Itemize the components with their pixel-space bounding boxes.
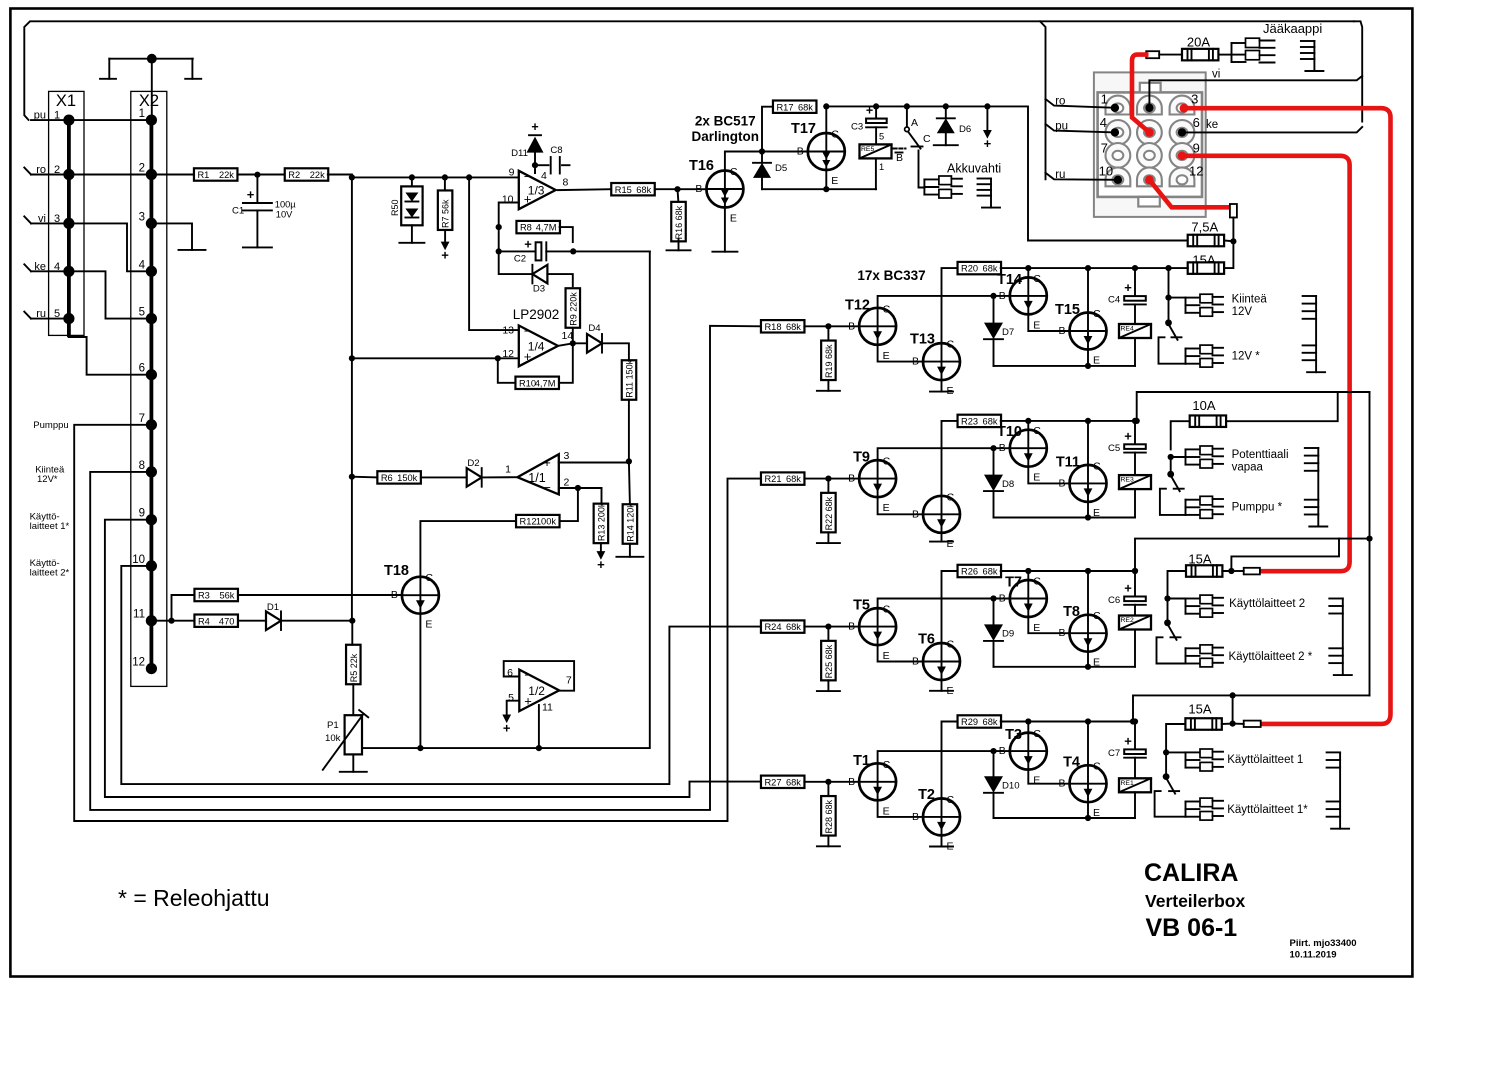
- svg-text:R11 150k: R11 150k: [625, 359, 635, 397]
- capacitor C7: [1108, 733, 1146, 759]
- wire R17 left to base row: [762, 107, 773, 152]
- svg-text:T6: T6: [918, 632, 935, 648]
- wire to R22: [827, 479, 829, 494]
- resistor R13: [594, 502, 609, 543]
- svg-text:B: B: [848, 776, 855, 788]
- svg-text:7: 7: [139, 413, 145, 425]
- wire vi branch pin2 to loop: [1145, 69, 1362, 113]
- transistor T18: [384, 563, 439, 631]
- wire RE3 to emitter rail: [1134, 489, 1136, 517]
- node branch junction: [1164, 595, 1170, 601]
- svg-text:Pumppu: Pumppu: [33, 420, 68, 431]
- svg-text:C: C: [947, 794, 955, 806]
- diode D6: [937, 106, 971, 145]
- svg-text:C: C: [1033, 576, 1041, 588]
- svg-text:Akkuvahti: Akkuvahti: [947, 162, 1001, 176]
- resistor R11: [622, 359, 637, 399]
- svg-text:+: +: [1124, 733, 1132, 748]
- wire section 4 rail to 15A fuse: [1135, 267, 1188, 269]
- svg-text:E: E: [1033, 319, 1040, 331]
- resistor R15: [611, 183, 655, 195]
- wire P1 wiper rail to feedback riser: [362, 252, 650, 749]
- svg-text:2x BC517: 2x BC517: [695, 114, 756, 129]
- svg-text:B: B: [797, 146, 804, 158]
- svg-text:1: 1: [54, 110, 60, 122]
- wire T9 emitter to second transistor: [878, 497, 923, 514]
- svg-text:ke: ke: [1206, 119, 1218, 131]
- wire op-amp 1/3 pin10 to R8/C2/D3 node: [499, 203, 533, 275]
- node diode D9 junction: [990, 595, 996, 601]
- wire T9 collector rail: [878, 448, 1010, 460]
- wire branch to upper connector: [1168, 598, 1186, 600]
- resistor R26: [958, 565, 1002, 577]
- wire T5 emitter to T6: [878, 645, 923, 661]
- svg-text:−: −: [524, 668, 532, 683]
- section collector rail: [1001, 420, 1135, 422]
- node 1/4 branch tap: [466, 174, 472, 180]
- svg-text:12: 12: [132, 657, 145, 669]
- node T3 collector junction: [1025, 568, 1031, 574]
- op-amp U1 1/4: [502, 324, 573, 367]
- svg-text:4: 4: [54, 261, 60, 273]
- node C3 junction: [873, 103, 879, 109]
- svg-text:T17: T17: [791, 121, 816, 137]
- svg-text:T13: T13: [910, 332, 935, 348]
- svg-text:150k: 150k: [397, 473, 418, 483]
- ground bar: [930, 541, 953, 543]
- svg-text:ru: ru: [36, 308, 46, 320]
- connector lower output plug: [1186, 645, 1224, 667]
- wire section 1 supply line: [1133, 695, 1370, 721]
- svg-text:R19 68k: R19 68k: [824, 344, 834, 378]
- wire to R25: [827, 627, 829, 642]
- X2 pin 12: [132, 657, 157, 675]
- resistor R3: [194, 589, 238, 601]
- svg-text:68k: 68k: [786, 622, 801, 632]
- wire T10 collector stub: [1027, 421, 1029, 430]
- svg-text:2: 2: [564, 477, 570, 489]
- svg-text:R16 68k: R16 68k: [674, 205, 684, 239]
- svg-text:4: 4: [541, 170, 547, 182]
- svg-text:E: E: [1033, 622, 1040, 634]
- wire second transistor emitter to ground: [941, 533, 943, 542]
- svg-text:R3: R3: [198, 591, 210, 601]
- node T3 collector junction: [1025, 265, 1031, 271]
- node op-amp 1/2 pin11 junction: [536, 745, 542, 751]
- connector upper output plug: [1186, 294, 1224, 316]
- resistor R25: [821, 641, 836, 681]
- node R50 tap: [409, 174, 415, 180]
- svg-text:B: B: [695, 183, 702, 195]
- svg-text:vi: vi: [1212, 69, 1220, 81]
- ground at T16: [712, 251, 737, 253]
- X2 pin 3: [139, 211, 157, 229]
- section collector rail: [1001, 721, 1135, 723]
- capacitor C2: [499, 237, 574, 265]
- svg-text:T15: T15: [1055, 302, 1080, 318]
- wire junction to R7: [444, 177, 446, 190]
- svg-text:D9: D9: [1002, 629, 1014, 640]
- svg-text:VB 06-1: VB 06-1: [1146, 914, 1238, 942]
- svg-text:R6: R6: [381, 473, 393, 483]
- wire T1 collector rail: [878, 751, 1010, 763]
- svg-text:B: B: [1058, 778, 1065, 790]
- svg-text:B: B: [896, 152, 903, 164]
- svg-text:T4: T4: [1063, 755, 1080, 771]
- node cap junction: [1132, 265, 1138, 271]
- svg-text:+: +: [441, 248, 449, 263]
- svg-text:R25 68k: R25 68k: [824, 644, 834, 678]
- relay RE1: [1119, 778, 1151, 792]
- wire ru to pin 10: [1046, 169, 1123, 184]
- connector lower output plug: [1186, 798, 1224, 820]
- capacitor C8: [535, 145, 570, 174]
- wire R25 to ground: [827, 680, 829, 691]
- supply + at R13: [597, 551, 606, 560]
- transistor T12: [845, 297, 896, 362]
- section 1 comb: [1327, 752, 1350, 828]
- svg-text:C: C: [1033, 425, 1041, 437]
- svg-text:R20: R20: [961, 264, 978, 274]
- svg-text:R17: R17: [776, 102, 793, 112]
- connector upper output plug: [1186, 446, 1224, 468]
- wire T7 collector stub: [1027, 571, 1029, 580]
- diode D4: [573, 323, 602, 353]
- svg-text:B: B: [999, 745, 1006, 757]
- wire switch to lower connector: [1155, 791, 1186, 817]
- svg-text:C: C: [1033, 273, 1041, 285]
- svg-text:R7 56k: R7 56k: [441, 199, 451, 228]
- svg-text:1: 1: [1101, 92, 1108, 107]
- node D11/C8 junction: [532, 162, 538, 168]
- svg-text:B: B: [848, 320, 855, 332]
- svg-text:B: B: [848, 473, 855, 485]
- wire lug to 7.5A junction: [1232, 218, 1234, 242]
- wire T14 collector stub: [1027, 268, 1029, 277]
- node pin3/R11/R14 junction: [626, 458, 632, 464]
- transistor T3: [999, 727, 1047, 787]
- wire stub to R3: [172, 595, 195, 621]
- wire T3 emitter to T4: [1028, 770, 1069, 784]
- svg-text:ro: ro: [36, 164, 46, 176]
- svg-text:C8: C8: [550, 145, 562, 156]
- diode D9: [984, 599, 1014, 667]
- ground at R50: [399, 242, 424, 244]
- svg-text:R8: R8: [520, 223, 532, 233]
- svg-text:E: E: [883, 650, 890, 662]
- transistor T13: [910, 332, 960, 398]
- diode D5: [753, 152, 787, 190]
- svg-text:T7: T7: [1005, 575, 1022, 591]
- svg-text:D10: D10: [1002, 781, 1020, 792]
- wire X2.3 to ground: [151, 223, 192, 250]
- wire T3 collector stub: [1027, 722, 1029, 733]
- svg-text:R26: R26: [961, 567, 978, 577]
- svg-text:D1: D1: [267, 602, 279, 613]
- svg-text:A: A: [911, 117, 918, 129]
- transistor T8: [1058, 604, 1106, 669]
- svg-text:R28 68k: R28 68k: [824, 800, 834, 834]
- wire C5 to relay: [1134, 453, 1136, 476]
- svg-text:1/3: 1/3: [528, 184, 545, 198]
- node supply marker junction: [984, 103, 990, 109]
- svg-text:13: 13: [502, 325, 514, 337]
- wire T10 emitter to T11: [1028, 467, 1069, 484]
- svg-text:D8: D8: [1002, 479, 1014, 490]
- svg-text:10: 10: [1099, 163, 1113, 178]
- wire to supply marker: [986, 106, 988, 130]
- wire R27 to T1 base: [804, 781, 859, 783]
- svg-text:470: 470: [219, 616, 235, 626]
- wire branch to upper connector: [1166, 751, 1185, 753]
- node long vertical tap: [1366, 536, 1372, 542]
- svg-text:56k: 56k: [219, 591, 234, 601]
- svg-text:+: +: [543, 455, 551, 470]
- svg-text:C: C: [947, 339, 955, 351]
- svg-text:R29: R29: [961, 717, 978, 727]
- svg-text:6: 6: [139, 363, 145, 375]
- resistor R10: [515, 377, 559, 389]
- svg-text:RE3: RE3: [1121, 477, 1134, 484]
- wire C2 node to P1 feedback line: [573, 250, 650, 252]
- wire R5 to P1: [352, 684, 354, 715]
- wire bus to R6: [352, 476, 378, 479]
- capacitor C4: [1108, 280, 1146, 306]
- wire R3 to T18 base: [238, 594, 402, 596]
- section 3 comb: [1305, 448, 1328, 527]
- X2 pin 6: [139, 363, 157, 381]
- wire T5 collector rail: [878, 599, 1010, 609]
- svg-text:4: 4: [139, 259, 146, 271]
- svg-text:T3: T3: [1005, 727, 1022, 743]
- connector X2: [131, 91, 167, 686]
- svg-text:B: B: [1058, 627, 1065, 639]
- svg-text:8: 8: [139, 460, 145, 472]
- svg-text:ke: ke: [34, 261, 46, 273]
- svg-text:D6: D6: [959, 124, 971, 135]
- fridge comb: [1301, 41, 1324, 71]
- transistor T7: [999, 575, 1047, 635]
- svg-text:4,7M: 4,7M: [536, 223, 557, 233]
- svg-text:E: E: [831, 175, 838, 187]
- svg-text:10A: 10A: [1192, 398, 1215, 413]
- X1 pin 1 (pu): [31, 110, 75, 126]
- svg-text:5: 5: [54, 308, 60, 320]
- wire branch to op-amp 1/4 pin 13: [469, 177, 519, 330]
- svg-text:9: 9: [139, 508, 145, 520]
- svg-text:B: B: [912, 356, 919, 368]
- node bus D1/R5 junction: [349, 618, 355, 624]
- svg-text:Käyttölaitteet 1*: Käyttölaitteet 1*: [1227, 804, 1308, 816]
- wire R2 to main bus: [328, 175, 352, 621]
- wire bus to op-amp 1/3 pin 9: [352, 176, 519, 178]
- wire branch to upper connector: [1171, 456, 1186, 458]
- svg-text:E: E: [1093, 355, 1100, 367]
- wire X2.10 loop to R24 riser: [121, 566, 761, 784]
- relay RE5: [860, 144, 892, 158]
- relay switch contact: [1163, 752, 1179, 793]
- X2 pin bus: [149, 120, 153, 669]
- svg-text:22k: 22k: [219, 170, 234, 180]
- wire R15 to T16 base: [655, 188, 707, 190]
- svg-text:Pumppu *: Pumppu *: [1232, 502, 1283, 514]
- transistor T15: [1055, 302, 1107, 367]
- ground bar: [930, 391, 953, 393]
- svg-text:T1: T1: [853, 753, 870, 769]
- fuse 15A section2: [1186, 565, 1222, 577]
- svg-text:C5: C5: [1108, 443, 1120, 454]
- svg-text:B: B: [391, 589, 398, 601]
- svg-text:C: C: [1093, 610, 1101, 622]
- svg-text:+: +: [1124, 280, 1132, 295]
- wire T4 emitter: [1087, 802, 1089, 818]
- wire R19 to ground: [827, 380, 829, 391]
- wire R4 to D1: [238, 620, 266, 622]
- resistor R29: [958, 715, 1002, 727]
- svg-text:1/1: 1/1: [528, 471, 545, 485]
- svg-text:10: 10: [502, 194, 514, 206]
- svg-text:B: B: [912, 811, 919, 823]
- wire R24 to T5 base: [804, 626, 859, 628]
- node T3 collector junction: [1025, 418, 1031, 424]
- svg-text:9: 9: [1193, 140, 1200, 155]
- svg-text:3: 3: [564, 450, 570, 462]
- wire ru X1.5 to X2.6: [69, 319, 151, 375]
- node lug junction: [1228, 568, 1234, 574]
- resistor R1: [194, 168, 238, 180]
- op-amp U1 1/2: [507, 667, 572, 714]
- svg-text:laitteet 2*: laitteet 2*: [30, 567, 70, 578]
- svg-text:C3: C3: [851, 122, 863, 133]
- svg-text:T10: T10: [997, 424, 1022, 440]
- svg-text:CALIRA: CALIRA: [1144, 859, 1238, 887]
- resistor R2: [285, 168, 329, 180]
- svg-text:15A: 15A: [1188, 702, 1211, 717]
- svg-text:C4: C4: [1108, 295, 1121, 306]
- wire op-amp 1/1 pin2 to R12/R13: [559, 487, 602, 489]
- resistor R14: [623, 503, 638, 544]
- svg-text:−: −: [524, 169, 532, 184]
- svg-text:C: C: [883, 759, 891, 771]
- resistor R18: [761, 320, 805, 332]
- diode D7: [984, 296, 1014, 366]
- section collector rail: [1001, 570, 1135, 572]
- svg-text:1: 1: [879, 162, 884, 172]
- red wire 20A lug to pin 5: [1132, 55, 1149, 133]
- svg-text:R1: R1: [197, 170, 209, 180]
- svg-text:R15: R15: [615, 185, 632, 195]
- wire R7 to supply marker: [444, 230, 446, 242]
- svg-text:−: −: [524, 324, 532, 339]
- wire T6 emitter to ground: [941, 680, 943, 691]
- node T4 collector junction: [1085, 718, 1091, 724]
- X1 pin 4 (ke): [31, 261, 75, 277]
- svg-text:22k: 22k: [310, 170, 325, 180]
- wire R9 to pin14 node: [572, 328, 574, 344]
- wire R1 to R2 with junction: [237, 174, 285, 176]
- transistor T2: [912, 787, 960, 853]
- X1 pin bus: [67, 120, 71, 335]
- svg-text:68k: 68k: [786, 474, 801, 484]
- wire 10A fuse left lead: [1171, 421, 1190, 449]
- ground at X2.3: [179, 249, 206, 251]
- section emitter rail: [994, 517, 1136, 519]
- wire T8 collector stub: [1087, 571, 1089, 615]
- op-amp 1/4: [519, 326, 558, 367]
- svg-text:12V: 12V: [1232, 306, 1253, 318]
- wire C4 to relay: [1134, 304, 1136, 324]
- X2 pin 4: [139, 259, 157, 277]
- wire to R19: [827, 326, 829, 341]
- wire RE4 to emitter rail: [1134, 338, 1136, 366]
- svg-text:R23: R23: [961, 417, 978, 427]
- wire vi X1.3 to X2.4: [69, 223, 151, 271]
- wire R21 to T9 base: [804, 478, 859, 480]
- node T8 emitter junction: [1085, 664, 1091, 670]
- svg-text:C: C: [947, 491, 955, 503]
- svg-text:Potenttiaali: Potenttiaali: [1232, 449, 1289, 461]
- wire 20A fuse to fridge plug: [1218, 54, 1231, 56]
- diode D8: [984, 448, 1014, 517]
- svg-text:Käyttölaitteet 2 *: Käyttölaitteet 2 *: [1229, 651, 1313, 663]
- node bus R6 tap: [349, 474, 355, 480]
- wire RE1 to emitter rail: [1134, 792, 1136, 818]
- node R19 junction: [825, 323, 831, 329]
- node T18 emitter junction: [417, 745, 423, 751]
- X1 pin 2 (ro): [31, 164, 75, 180]
- svg-text:Piirt. mjo33400: Piirt. mjo33400: [1290, 938, 1357, 949]
- op-amp U1 1/3: [502, 166, 569, 209]
- svg-text:20A: 20A: [1187, 35, 1210, 50]
- svg-text:68k: 68k: [983, 567, 998, 577]
- node diode D10 junction: [990, 748, 996, 754]
- wire op-amp 1/4 output to D4 node: [558, 343, 573, 346]
- wire T13 emitter to ground: [941, 380, 943, 392]
- svg-text:E: E: [883, 350, 890, 362]
- resistor R9: [566, 288, 581, 328]
- svg-text:68k: 68k: [983, 264, 998, 274]
- resistor R22: [821, 493, 836, 532]
- long supply vertical: [1369, 392, 1371, 695]
- wire ro row X1.2 to X2.2: [69, 174, 151, 176]
- node pin14/D4 junction: [570, 340, 576, 346]
- LED D11: [511, 120, 543, 173]
- node T4 collector junction: [1085, 265, 1091, 271]
- svg-text:C: C: [425, 572, 433, 584]
- svg-text:1/2: 1/2: [528, 684, 545, 698]
- connector lower output plug: [1186, 345, 1224, 367]
- svg-text:2: 2: [54, 164, 60, 176]
- svg-text:E: E: [883, 805, 890, 817]
- transistor T6: [912, 632, 960, 698]
- svg-text:100k: 100k: [536, 517, 557, 527]
- resistor R19: [821, 341, 836, 381]
- diode D2: [467, 458, 482, 487]
- svg-text:B: B: [999, 442, 1006, 454]
- wire T18 emitter: [419, 614, 421, 748]
- svg-text:T14: T14: [997, 272, 1022, 288]
- svg-text:D5: D5: [775, 163, 787, 174]
- ground bar: [930, 690, 953, 692]
- wire section 3 supply line: [1137, 392, 1370, 421]
- svg-text:D7: D7: [1002, 327, 1014, 338]
- fuse 7,5A: [1188, 235, 1224, 247]
- svg-text:3: 3: [54, 213, 60, 225]
- wire T12 collector rail: [878, 296, 1010, 308]
- svg-text:+: +: [597, 557, 605, 572]
- diode D3: [532, 265, 547, 295]
- node T4 collector junction: [1085, 568, 1091, 574]
